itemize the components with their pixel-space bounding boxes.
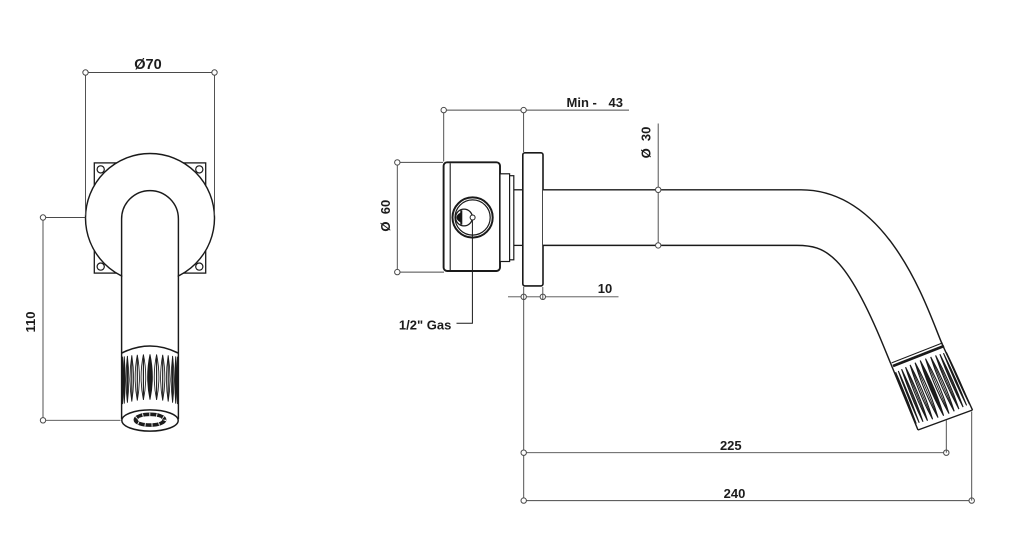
svg-text:240: 240 [724,486,746,501]
svg-text:43: 43 [609,95,623,110]
svg-text:225: 225 [720,438,742,453]
svg-text:Ø 30: Ø 30 [639,127,654,159]
svg-text:10: 10 [598,281,612,296]
svg-text:110: 110 [23,312,38,333]
svg-text:1/2" Gas: 1/2" Gas [399,318,451,333]
svg-text:Min -: Min - [567,95,597,110]
svg-text:Ø70: Ø70 [134,57,161,73]
svg-text:Ø 60: Ø 60 [378,200,393,232]
